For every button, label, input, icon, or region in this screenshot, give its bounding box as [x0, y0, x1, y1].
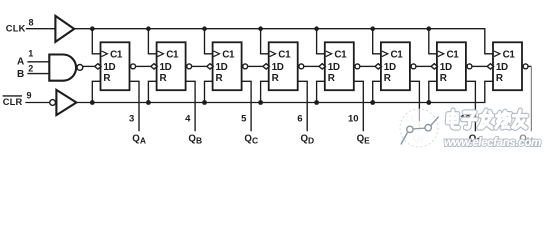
junction dot clock bus FF3 — [202, 26, 207, 31]
junction dot clear bus FF5 — [314, 100, 319, 105]
svg-text:3: 3 — [129, 114, 134, 125]
wire QF to FF7 1D — [416, 65, 431, 67]
wire clock drop to FF5 — [317, 29, 326, 54]
svg-text:B: B — [17, 69, 24, 80]
inverter U3 input bubble — [50, 100, 56, 106]
NAND gate U2 (A,B) — [49, 55, 76, 81]
FF6 output circle Q — [411, 64, 416, 69]
svg-text:R: R — [384, 73, 391, 84]
FF3 output circle Q — [243, 64, 248, 69]
wire clear riser to FF5 R — [317, 81, 326, 102]
svg-text:QA: QA — [132, 134, 146, 146]
svg-text:www.elecfans.com: www.elecfans.com — [444, 136, 541, 149]
junction dot clear bus FF4 — [258, 100, 263, 105]
flip-flop FF2 box — [157, 42, 186, 90]
wire QE to FF6 1D — [360, 65, 375, 67]
svg-text:1D: 1D — [496, 62, 508, 73]
FF2 input diamond 1D — [151, 64, 157, 69]
wire clock bus — [74, 29, 494, 54]
wire clock drop to FF3 — [205, 29, 214, 54]
wire clock drop to FF2 — [148, 29, 157, 54]
junction dot clock bus FF5 — [314, 26, 319, 31]
wire clear riser to FF4 R — [261, 81, 270, 102]
svg-text:R: R — [160, 73, 167, 84]
svg-text:R: R — [103, 73, 110, 84]
FF4 output circle Q — [299, 64, 304, 69]
svg-text:C1: C1 — [166, 50, 179, 61]
wire clear riser to FF7 R — [429, 81, 438, 102]
svg-text:R: R — [496, 73, 503, 84]
junction dot clock bus FF7 — [427, 26, 432, 31]
FF7 input diamond 1D — [431, 64, 437, 69]
junction dot clock bus FF1 — [90, 26, 95, 31]
wire clear bus — [76, 81, 494, 102]
wire clear riser to FF1 R — [92, 81, 101, 102]
wire NAND to FF1 1D — [83, 65, 95, 67]
svg-text:CLR: CLR — [3, 97, 23, 107]
wire clear riser to FF2 R — [148, 81, 157, 102]
svg-text:QC: QC — [244, 134, 258, 146]
svg-text:QD: QD — [301, 134, 315, 146]
svg-text:5: 5 — [241, 114, 247, 125]
flip-flop FF3 box — [213, 42, 242, 90]
wire QB to FF3 1D — [192, 65, 207, 67]
FF7 clock wedge — [438, 51, 444, 57]
FF4 clock wedge — [270, 51, 276, 57]
FF1 input diamond 1D — [95, 64, 101, 69]
svg-text:1D: 1D — [103, 62, 115, 73]
svg-text:C1: C1 — [334, 50, 347, 61]
wire CLR to inverter — [25, 102, 49, 104]
wire clock drop to FF4 — [261, 29, 270, 54]
svg-text:8: 8 — [28, 17, 33, 27]
wire clock drop to FF7 — [429, 29, 438, 54]
svg-text:2: 2 — [28, 63, 33, 73]
flip-flop FF7 box — [437, 42, 466, 90]
svg-text:A: A — [17, 56, 24, 67]
flip-flop FF1 box — [101, 42, 130, 90]
wire CLK to buffer — [26, 28, 56, 30]
svg-text:9: 9 — [26, 91, 31, 101]
FF2 clock wedge — [158, 51, 164, 57]
svg-text:C1: C1 — [503, 50, 516, 61]
svg-text:C1: C1 — [222, 50, 235, 61]
FF8 output circle Q — [523, 64, 528, 69]
junction dot clear bus FF6 — [370, 100, 375, 105]
FF6 clock wedge — [382, 51, 388, 57]
junction dot clock bus FF6 — [370, 26, 375, 31]
wire QE output tap — [355, 81, 364, 131]
junction dot clear bus FF3 — [202, 100, 207, 105]
svg-text:R: R — [272, 73, 279, 84]
svg-text:C1: C1 — [391, 50, 404, 61]
svg-text:R: R — [216, 73, 223, 84]
wire QG to FF8 1D — [472, 65, 487, 67]
FF8 input diamond 1D — [487, 64, 493, 69]
flip-flop FF6 box — [381, 42, 410, 90]
svg-text:C1: C1 — [278, 50, 291, 61]
FF1 output circle Q — [131, 64, 136, 69]
svg-text:6: 6 — [297, 114, 302, 125]
flip-flop FF4 box — [269, 42, 298, 90]
svg-text:C1: C1 — [110, 50, 123, 61]
FF3 input diamond 1D — [207, 64, 213, 69]
svg-text:1D: 1D — [328, 62, 340, 73]
svg-text:1D: 1D — [160, 62, 172, 73]
svg-text:CLK: CLK — [6, 24, 26, 34]
svg-text:1D: 1D — [216, 62, 228, 73]
CLR overline — [3, 95, 22, 97]
wire QA output tap — [130, 81, 139, 131]
junction dot clear bus FF1 — [90, 100, 95, 105]
FF5 output circle Q — [355, 64, 360, 69]
svg-text:1D: 1D — [272, 62, 284, 73]
FF7 output circle Q — [467, 64, 472, 69]
svg-text:R: R — [328, 73, 335, 84]
wire B to NAND — [27, 73, 50, 75]
wire QB output tap — [186, 81, 195, 131]
wire QD to FF5 1D — [304, 65, 319, 67]
wire clock drop to FF6 — [373, 29, 382, 54]
wire QC output tap — [242, 81, 251, 131]
inverter U3 (CLR driver) — [56, 90, 76, 115]
FF5 clock wedge — [326, 51, 332, 57]
watermark logo circle — [400, 109, 439, 147]
FF5 input diamond 1D — [319, 64, 325, 69]
FF3 clock wedge — [214, 51, 220, 57]
junction dot clear bus FF7 — [426, 100, 431, 105]
wire clock drop to FF1 — [92, 29, 101, 54]
svg-text:QB: QB — [188, 134, 202, 146]
junction dot clock bus FF4 — [258, 26, 263, 31]
junction dot clock bus FF2 — [146, 26, 151, 31]
svg-text:1D: 1D — [440, 62, 452, 73]
NAND output bubble — [77, 65, 83, 71]
svg-text:QE: QE — [357, 134, 371, 146]
flip-flop FF8 box — [493, 42, 522, 90]
wire QF output tap — [411, 81, 420, 131]
wire QD output tap — [299, 81, 308, 131]
svg-text:C1: C1 — [447, 50, 460, 61]
watermark hanzi 电子发烧友 — [447, 110, 527, 128]
svg-text:1: 1 — [28, 49, 33, 59]
wire clear riser to FF6 R — [373, 81, 382, 102]
flip-flop FF5 box — [325, 42, 354, 90]
FF2 output circle Q — [187, 64, 192, 69]
wire clear riser to FF3 R — [205, 81, 214, 102]
buffer U1 (CLK driver) — [55, 16, 74, 42]
FF8 clock wedge — [494, 51, 500, 57]
FF1 clock wedge — [102, 51, 108, 57]
svg-text:1D: 1D — [384, 62, 396, 73]
wire QG output tap — [467, 81, 476, 131]
svg-text:4: 4 — [185, 114, 191, 125]
FF4 input diamond 1D — [263, 64, 269, 69]
wire QH output tap — [528, 65, 531, 67]
wire QA to FF2 1D — [136, 65, 151, 67]
wire A to NAND — [27, 61, 50, 63]
svg-text:10: 10 — [348, 114, 359, 125]
svg-text:R: R — [440, 73, 447, 84]
junction dot clear bus FF2 — [146, 100, 151, 105]
FF6 input diamond 1D — [375, 64, 381, 69]
wire QC to FF4 1D — [248, 65, 263, 67]
